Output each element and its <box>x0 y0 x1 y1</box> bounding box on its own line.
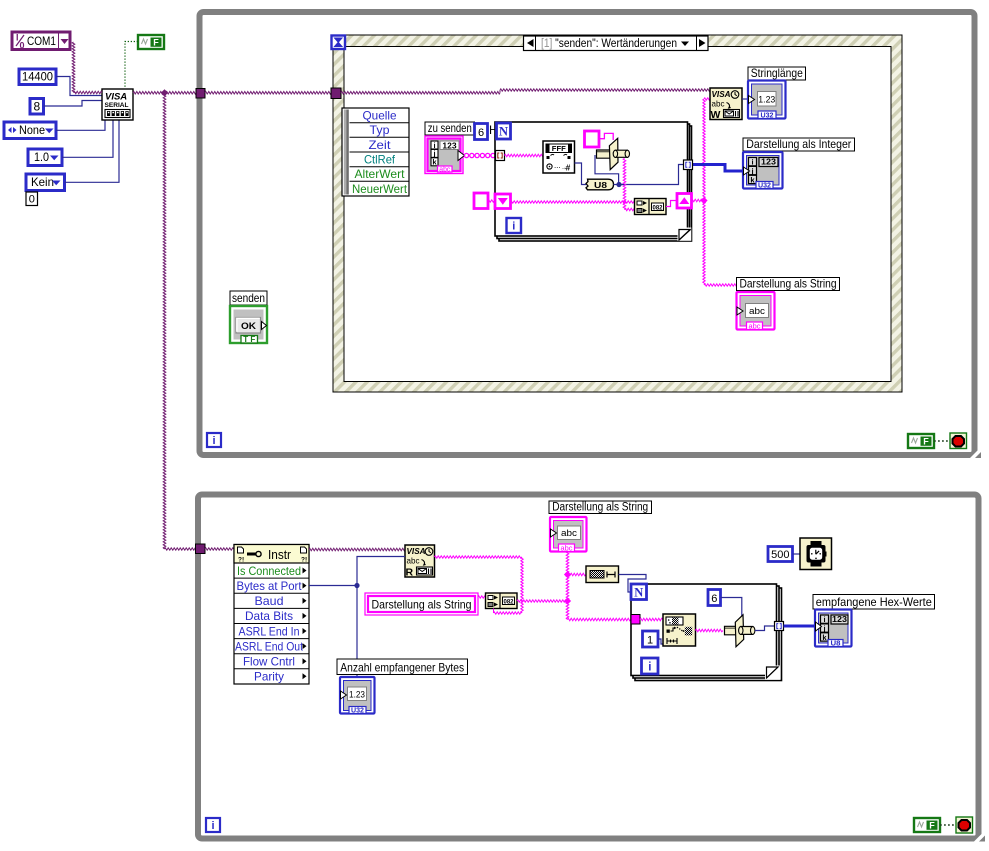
wire tunnel to string subset icon <box>640 618 663 621</box>
wire type cast out to tunnel (loop 2) <box>755 626 777 631</box>
svg-text:Bytes at Port: Bytes at Port <box>237 579 303 593</box>
U8 conversion bullet <box>586 179 614 190</box>
svg-text:Parity: Parity <box>254 670 284 684</box>
hex string to number function <box>543 141 575 173</box>
svg-text:abc: abc <box>561 528 578 538</box>
svg-text:?!: ?! <box>238 557 244 564</box>
wire tunnel to property node (purple) <box>205 548 234 550</box>
svg-text:N: N <box>634 586 643 600</box>
event structure timeout terminal (hourglass) <box>332 36 346 50</box>
svg-text:U32: U32 <box>351 708 364 715</box>
svg-text:abc: abc <box>712 99 726 109</box>
control COM1 (VISA resource name) <box>12 32 70 50</box>
svg-text:F: F <box>153 37 159 47</box>
for loop 1 folded corner <box>678 228 692 241</box>
svg-text:zu senden: zu senden <box>428 121 472 135</box>
Stringlaenge label <box>748 67 806 80</box>
wire VISA node out (purple) <box>133 92 196 95</box>
Anzahl empfangener Bytes label <box>337 659 468 675</box>
svg-text:123: 123 <box>761 157 776 167</box>
svg-text:Instr: Instr <box>268 548 291 562</box>
svg-text:i: i <box>823 615 825 624</box>
wire shift register out to junction (magenta) <box>692 199 705 202</box>
svg-text:I: I <box>16 33 19 43</box>
svg-text:#: # <box>566 163 571 173</box>
wire tunnel to hex indicator (thick array) <box>784 625 817 628</box>
svg-text:Stringlänge: Stringlänge <box>751 66 803 80</box>
wire hex icon to U8 conversion <box>575 163 587 185</box>
wire Kein to VISA node <box>65 120 120 182</box>
svg-text:Baud: Baud <box>255 594 284 608</box>
svg-text:COM1: COM1 <box>27 34 56 48</box>
type cast function (funnel, loop 2) <box>725 626 739 635</box>
svg-text:i: i <box>212 435 215 447</box>
numeric constant 6 (loop 1) <box>475 124 488 140</box>
string type constant (empty, loop 1) <box>585 131 600 147</box>
wire 1 to subset icon <box>658 639 663 644</box>
wire tunnel to event structure (purple) <box>205 92 331 95</box>
svg-text:Darstellung als String: Darstellung als String <box>740 276 837 290</box>
boolean constant F (loop 1 stop) <box>908 434 934 448</box>
svg-text:?!: ?! <box>301 557 307 564</box>
numeric constant 500 <box>768 547 793 562</box>
wire to loop condition (dotted, loop 2) <box>940 824 956 826</box>
svg-text:j: j <box>750 166 753 175</box>
Darstellung als String indicator (loop 1) <box>737 292 775 330</box>
string subset function (loop 2) <box>663 614 696 646</box>
svg-text:0: 0 <box>20 41 25 51</box>
wait until next ms multiple (metronome) <box>800 538 832 570</box>
svg-text:U8: U8 <box>831 641 841 648</box>
svg-text:[1] "senden": Wertänderungen: [1] "senden": Wertänderungen <box>541 38 677 50</box>
svg-text:Is Connected: Is Connected <box>237 564 301 578</box>
string constant (empty) for shift register <box>474 193 488 209</box>
wire boolean constant to VISA node (dotted green) <box>125 42 138 89</box>
svg-text:abc: abc <box>749 306 766 316</box>
svg-text:6: 6 <box>711 593 717 605</box>
event data node <box>342 108 409 196</box>
Darstellung als String label (loop 2) <box>549 501 652 514</box>
wire down to while loop 2 (purple) <box>163 94 166 549</box>
svg-text:Anzahl empfangener Bytes: Anzahl empfangener Bytes <box>340 660 464 674</box>
svg-text:ASRL End Out: ASRL End Out <box>235 639 304 653</box>
Darstellung als String indicator (loop 2) <box>550 517 587 552</box>
tunnel on while loop 1 border (VISA wire) <box>196 89 205 99</box>
for loop 2 frame (stacked) <box>635 588 782 681</box>
svg-text:i: i <box>512 221 515 233</box>
VISA Configure Serial Port node <box>102 89 133 120</box>
tunnel on event structure border (VISA wire) <box>331 88 341 99</box>
svg-text:CtlRef: CtlRef <box>364 153 396 167</box>
magenta wire down to string indicator <box>703 201 705 286</box>
for loop 2 folded corner <box>765 666 780 680</box>
svg-text:Kein: Kein <box>31 175 54 189</box>
svg-text:Data Bits: Data Bits <box>245 609 293 623</box>
svg-text:ASRL End In: ASRL End In <box>239 624 300 638</box>
svg-text:i: i <box>211 820 214 832</box>
wire property node to VISA Read (purple) <box>309 548 405 551</box>
svg-text:U8: U8 <box>594 180 607 190</box>
iteration terminal i (for loop 1) <box>507 218 522 233</box>
ring constant 1.0 <box>28 149 62 166</box>
svg-text:F: F <box>923 436 929 446</box>
iteration terminal i (for loop 2) <box>642 658 659 674</box>
svg-text:FFF: FFF <box>552 146 567 153</box>
svg-text:VISA: VISA <box>407 546 426 556</box>
magenta wire up to VISA Write <box>703 99 705 201</box>
wire U8 out junction <box>614 184 627 186</box>
svg-text:6: 6 <box>478 127 484 139</box>
svg-text:i: i <box>751 158 753 167</box>
iteration terminal i (loop 2) <box>206 818 220 832</box>
wire subset icon to type cast (magenta) <box>696 629 724 632</box>
Darstellung als String label (loop 1) <box>737 278 840 291</box>
wire junction to output tunnel (loop 1) <box>619 165 684 185</box>
boolean constant F (top) <box>138 35 164 49</box>
iteration terminal i (loop 1) <box>207 433 221 447</box>
svg-text:8: 8 <box>33 100 40 114</box>
svg-text:None: None <box>19 123 45 137</box>
svg-text:1.23: 1.23 <box>758 95 775 106</box>
string to byte array icon (loop 2) <box>486 593 518 609</box>
svg-text:AlterWert: AlterWert <box>355 167 406 181</box>
svg-text:1.0: 1.0 <box>34 150 49 164</box>
VISA Write function <box>710 88 742 120</box>
wire icon out to junction <box>517 600 568 602</box>
svg-text:abc: abc <box>561 544 573 553</box>
Darstellung als Integer indicator (array of U32) <box>743 152 783 189</box>
wire replace icon to right shift register <box>666 201 677 207</box>
wire Bytes at Port out with junction <box>309 585 357 587</box>
count terminal N (loop 1) <box>497 123 511 139</box>
junction to lower loop <box>161 89 168 96</box>
svg-text:1.23: 1.23 <box>349 689 365 699</box>
svg-text:W: W <box>711 109 721 121</box>
numeric constant 1 (loop 2) <box>643 631 659 647</box>
replace substring icon (loop 1) <box>635 199 667 215</box>
Anzahl empfangener Bytes indicator U32 <box>340 677 375 714</box>
svg-text:abc: abc <box>749 322 761 331</box>
VISA Read function <box>405 545 435 577</box>
shift register right (loop 1) <box>677 194 692 209</box>
Stringlaenge indicator terminal U32 <box>748 81 786 119</box>
wire shift register to concat icon <box>511 201 635 203</box>
wire constant to shift register <box>488 200 495 202</box>
svg-text:U32: U32 <box>758 183 771 190</box>
string length function <box>586 566 619 583</box>
svg-text:senden: senden <box>232 291 265 305</box>
svg-text:T F: T F <box>243 335 255 344</box>
svg-text:082: 082 <box>653 204 663 211</box>
svg-text:Darstellung als String: Darstellung als String <box>372 598 472 612</box>
svg-text:VISA: VISA <box>105 92 127 103</box>
wire for loop 1 out to integer indicator (thick array) <box>688 165 744 172</box>
input tunnel (loop 2, string) <box>631 615 640 625</box>
wire string length to N (loop 2) <box>619 575 647 593</box>
empfangene Hex-Werte label <box>813 595 935 610</box>
svg-text:082: 082 <box>504 598 514 605</box>
svg-text:14400: 14400 <box>22 70 53 84</box>
event case selector label <box>524 36 709 51</box>
wire VISA Read data out (magenta) <box>435 556 523 558</box>
svg-text:Darstellung als String: Darstellung als String <box>552 501 648 513</box>
svg-text:Typ: Typ <box>370 123 390 137</box>
senden button label <box>230 291 267 305</box>
while loop 2 corner notch <box>973 834 984 845</box>
wire 6 to type cast type input <box>721 598 742 617</box>
auto-index output tunnel (loop 1) <box>684 160 693 170</box>
auto-index input tunnel (loop 1) <box>496 151 505 161</box>
boolean constant F (loop 2 stop) <box>914 818 940 832</box>
wire tunnel to hex-string-to-number icon <box>505 154 544 157</box>
wire to loop condition (dotted) <box>934 440 950 442</box>
auto-index output tunnel (loop 2) <box>775 622 784 631</box>
svg-text:VISA: VISA <box>712 89 731 99</box>
wire 14400 to VISA node <box>56 77 102 96</box>
svg-text:123: 123 <box>442 140 456 150</box>
numeric constant 0 <box>26 192 38 206</box>
type cast output wire (magenta) <box>623 159 626 210</box>
for loop 1 frame (stacked) <box>499 126 692 241</box>
tunnel on while loop 2 border (VISA) <box>196 544 206 554</box>
wire 1.0 to VISA node <box>62 120 113 157</box>
wire local variable to string-to-byte icon <box>478 596 486 598</box>
svg-text:F: F <box>929 820 935 830</box>
svg-text:abc: abc <box>439 166 450 173</box>
svg-text:Zeit: Zeit <box>369 138 392 152</box>
svg-text:Quelle: Quelle <box>363 109 397 123</box>
wire COM1 to VISA node (VISA resource, purple) <box>72 42 75 93</box>
svg-text:NeuerWert: NeuerWert <box>352 182 408 196</box>
svg-text:i: i <box>648 662 651 674</box>
wire junction up to type cast input <box>595 155 619 185</box>
event structure frame <box>333 35 902 392</box>
svg-text:500: 500 <box>771 549 789 561</box>
ring constant Kein <box>26 174 65 191</box>
wire indicator down through junctions (magenta) <box>566 552 569 620</box>
empfangene Hex-Werte indicator (array of U8) <box>815 610 852 647</box>
svg-text:U32: U32 <box>761 113 774 120</box>
type cast function (funnel, loop 1) <box>597 150 613 158</box>
svg-text:N: N <box>499 125 508 139</box>
while loop 1 corner notch <box>969 450 980 461</box>
svg-text:Darstellung als Integer: Darstellung als Integer <box>746 137 851 151</box>
numeric constant 6 (loop 2) <box>708 590 721 606</box>
svg-text:123: 123 <box>832 614 847 624</box>
wire 500 to wait timer <box>793 553 801 555</box>
svg-text:OK: OK <box>241 321 256 332</box>
numeric constant 14400 <box>19 69 56 85</box>
svg-text:1: 1 <box>647 634 653 646</box>
zu senden array terminal <box>425 136 463 174</box>
svg-text:abc: abc <box>407 556 421 566</box>
wire inside event structure to VISA Write (purple) <box>341 92 500 95</box>
local variable Darstellung als String <box>365 593 478 615</box>
property node VISA Instr <box>234 545 309 685</box>
shift register left (loop 1) <box>495 194 511 209</box>
wire 8 to VISA node <box>44 101 103 107</box>
senden boolean button terminal <box>230 306 267 343</box>
svg-text:j: j <box>822 624 825 633</box>
wire None to VISA node <box>56 120 105 130</box>
numeric constant 8 <box>30 99 44 115</box>
count terminal N (loop 2) <box>631 584 647 600</box>
Darstellung als Integer label <box>743 138 855 151</box>
wire type constant to type cast <box>599 133 613 140</box>
svg-text:empfangene Hex-Werte: empfangene Hex-Werte <box>816 595 932 609</box>
loop condition terminal stop (loop 1) <box>950 433 967 449</box>
while loop 2 frame <box>198 495 979 839</box>
wire VISA Write to Stringlaenge <box>742 98 748 100</box>
svg-text:0: 0 <box>29 194 35 206</box>
enum constant None <box>4 122 56 139</box>
svg-text:SERIAL: SERIAL <box>105 103 129 109</box>
svg-text:Flow Cntrl: Flow Cntrl <box>243 655 295 669</box>
loop condition terminal stop (loop 2) <box>956 817 973 833</box>
zu senden label <box>425 122 475 135</box>
svg-text:R: R <box>406 567 414 579</box>
wire zu senden to for loop (array of strings chain) <box>464 153 468 157</box>
while loop 1 frame <box>200 12 975 455</box>
